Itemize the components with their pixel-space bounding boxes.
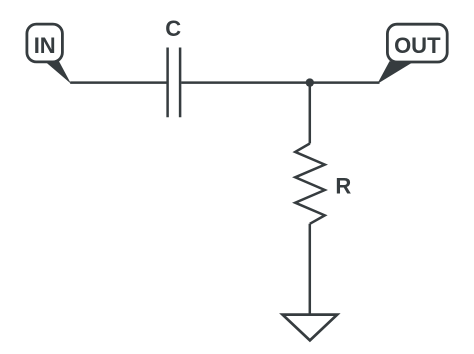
OUT terminal box xyxy=(387,24,447,62)
svg-text:OUT: OUT xyxy=(394,33,441,58)
svg-text:IN: IN xyxy=(34,33,56,58)
IN terminal box xyxy=(27,24,63,62)
IN terminal tail xyxy=(42,59,72,84)
OUT terminal tail xyxy=(377,61,414,84)
node junction dot xyxy=(306,78,314,86)
svg-text:R: R xyxy=(335,173,351,198)
resistor R xyxy=(295,144,325,224)
capacitor C xyxy=(168,48,181,118)
svg-text:C: C xyxy=(165,16,181,41)
ground xyxy=(283,315,338,341)
wire from resistor bottom to ground xyxy=(309,224,312,316)
wire from capacitor right plate to OUT tail xyxy=(181,81,379,84)
wire from node to resistor top xyxy=(309,83,312,144)
wire from IN tail to capacitor left plate xyxy=(70,81,166,84)
